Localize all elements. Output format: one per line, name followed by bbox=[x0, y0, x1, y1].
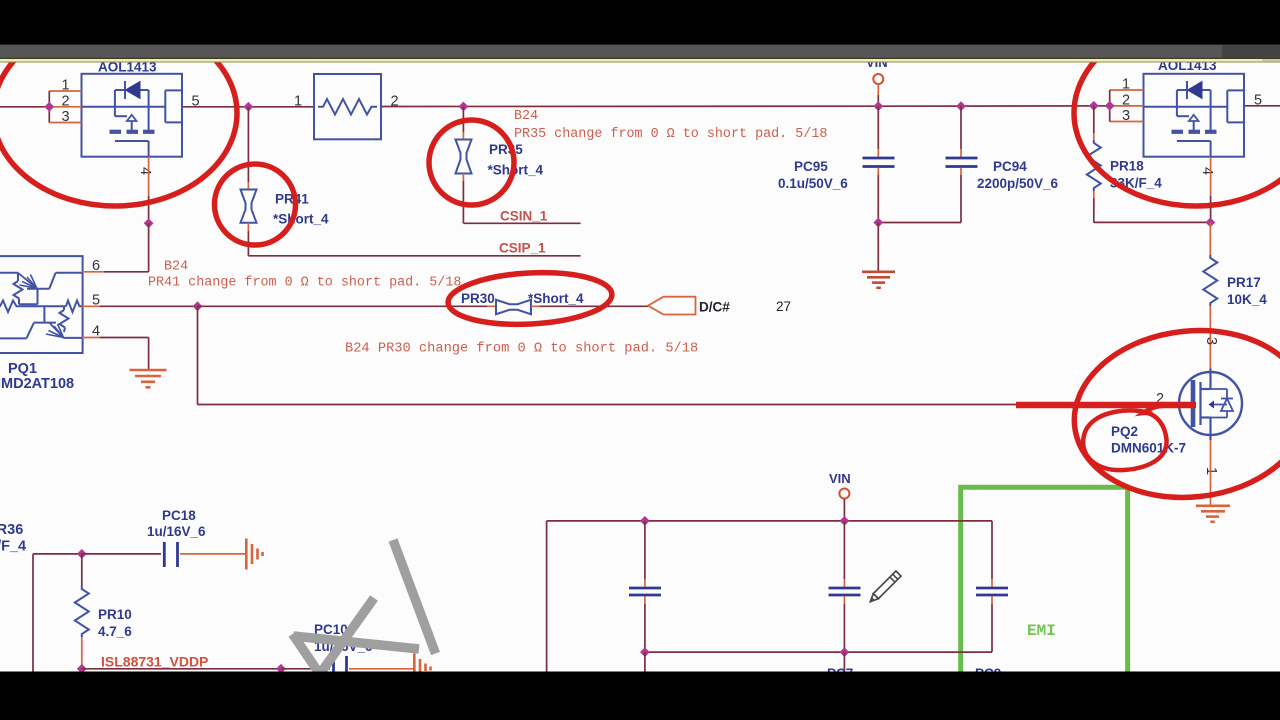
red marker ellipse around Q-right AOL1413 bbox=[1074, 20, 1280, 206]
node: junction dot PC94 branch bbox=[956, 101, 966, 111]
svg-text:CSIP_1: CSIP_1 bbox=[499, 241, 546, 256]
transistor Q-right AOL1413 bbox=[1144, 74, 1245, 157]
resistor PR35 (short pad hourglass) bbox=[456, 140, 472, 174]
wire: left corner net to PC18/PR10 bbox=[33, 553, 82, 555]
svg-text:2200p/50V_6: 2200p/50V_6 bbox=[977, 176, 1059, 191]
node: junction dot PR17 top bbox=[1205, 218, 1215, 228]
wire: PQ2 source to ground bbox=[1210, 440, 1212, 505]
wire: bottom block bottom rail bbox=[645, 651, 992, 653]
svg-text:3: 3 bbox=[62, 109, 70, 125]
capacitor PC10 bbox=[332, 656, 335, 672]
svg-text:B24: B24 bbox=[514, 109, 538, 124]
svg-text:IMD2AT108: IMD2AT108 bbox=[0, 376, 74, 392]
wire: PQ1 pin4 to ground bbox=[82, 337, 100, 339]
red marker thick line over PQ2 gate wire bbox=[1016, 402, 1196, 409]
node: junction dot VIN top bbox=[873, 101, 883, 111]
svg-text:2: 2 bbox=[62, 93, 70, 109]
node: junction dot at PR41 branch bbox=[244, 102, 254, 112]
svg-text:PR35 change from 0 Ω to short: PR35 change from 0 Ω to short pad. 5/18 bbox=[514, 127, 827, 142]
dark olive separator line bbox=[0, 58, 1280, 60]
pale yellow ruler strip bbox=[0, 59, 1280, 62]
wire: net CSIN_1 bbox=[463, 222, 580, 224]
wire: mid net to PR30 bbox=[198, 305, 488, 307]
node: junction dot bottom rail mid bbox=[840, 647, 850, 657]
transistor Q-left AOL1413 bbox=[82, 74, 183, 157]
resistor PR10 bbox=[81, 554, 83, 586]
transistor PQ1 IMD2AT108 bbox=[0, 256, 83, 353]
svg-text:PR36: PR36 bbox=[0, 522, 23, 538]
svg-text:27: 27 bbox=[776, 299, 791, 314]
svg-text:2: 2 bbox=[391, 94, 399, 110]
resistor PR41 (short pad hourglass) bbox=[241, 190, 257, 223]
capacitor (bottom left, PC?) bbox=[644, 521, 646, 579]
ground (PC10, rotated right-facing) bbox=[414, 654, 430, 673]
node: junction dot PC18/PR10 bbox=[77, 549, 87, 559]
node: junction dot at PR35 branch bbox=[459, 102, 469, 112]
svg-text:1u/16V_6: 1u/16V_6 bbox=[147, 524, 206, 539]
svg-text:PR17: PR17 bbox=[1227, 275, 1261, 290]
pencil cursor icon bbox=[868, 571, 901, 604]
svg-text:CSIN_1: CSIN_1 bbox=[500, 209, 548, 224]
svg-text:PR41 change from 0 Ω to short: PR41 change from 0 Ω to short pad. 5/18 bbox=[148, 276, 461, 291]
svg-text:0.1u/50V_6: 0.1u/50V_6 bbox=[778, 176, 848, 191]
capacitor PC94 bbox=[960, 106, 962, 149]
wire: down to PR41 bbox=[247, 107, 249, 182]
svg-text:EMI: EMI bbox=[1027, 622, 1056, 640]
node: junction dot right bracket bbox=[1105, 101, 1115, 111]
wire: PR41 bottom to CSIP_1 line bbox=[247, 223, 249, 231]
node: junction dot PR18 branch bbox=[1089, 101, 1099, 111]
node: junction dot top rail left cap bbox=[640, 516, 650, 526]
wire: resistor-box to PR35 junction and onward to VIN bbox=[381, 105, 878, 107]
watermark gray strokes bbox=[293, 540, 436, 676]
wire: down to PR35 bbox=[462, 107, 464, 133]
red marker blob around PQ2 bbox=[1066, 319, 1280, 509]
wire: net CSIP_1 bbox=[248, 255, 580, 257]
svg-text:1: 1 bbox=[62, 78, 70, 94]
node: junction dot pin4/pin6 bbox=[144, 218, 154, 228]
node: junction dot PR10 bottom bbox=[77, 664, 87, 674]
green EMI box bbox=[961, 487, 1128, 672]
svg-text:DMN601K-7: DMN601K-7 bbox=[1111, 441, 1186, 456]
svg-text:4: 4 bbox=[137, 167, 153, 175]
resistor PR17 bbox=[1209, 222, 1211, 255]
svg-text:D/C#: D/C# bbox=[699, 300, 730, 315]
resistor PR18 bbox=[1093, 106, 1095, 133]
yellow strip lower edge bbox=[0, 62, 1280, 63]
capacitor (bottom right in EMI box, PC?) bbox=[991, 521, 993, 579]
node: junction dot at left bracket bbox=[44, 102, 54, 112]
svg-text:4.7_6: 4.7_6 bbox=[98, 624, 132, 639]
wire: Q-left pin4 down to node bbox=[148, 157, 150, 196]
wire: PQ1 pin5 to mid net bbox=[82, 305, 100, 307]
red marker circle around PR41 bbox=[215, 164, 296, 245]
svg-text:0/F_4: 0/F_4 bbox=[0, 539, 26, 555]
svg-text:4: 4 bbox=[1199, 167, 1215, 175]
red marker ellipse around PR30 bbox=[447, 269, 613, 329]
wire: main top net y=106.5 left segment bbox=[0, 106, 49, 108]
svg-text:ISL88731_VDDP: ISL88731_VDDP bbox=[101, 654, 208, 670]
wire: Q-right pin4 down bbox=[1210, 158, 1212, 196]
pin bracket pins 1,2,3 (right Q) bbox=[1110, 90, 1144, 122]
capacitor PC95 bbox=[877, 106, 879, 149]
top black letterbox bar bbox=[0, 0, 1280, 45]
svg-text:PQ1: PQ1 bbox=[8, 361, 37, 377]
wire: mid node down and across to PQ2 gate bbox=[197, 306, 199, 404]
wire: PR35 bottom to CSIN_1 line bbox=[462, 174, 464, 182]
svg-text:PR35: PR35 bbox=[489, 142, 523, 157]
svg-text:B24: B24 bbox=[164, 260, 188, 275]
connector D/C# (off-page arrow) bbox=[648, 297, 696, 315]
svg-text:2: 2 bbox=[1122, 92, 1130, 108]
red marker ellipse around Q-left AOL1413 bbox=[0, 20, 237, 206]
svg-text:PC18: PC18 bbox=[162, 508, 196, 523]
wire: stubs down to edge bbox=[644, 652, 646, 672]
pin bracket pins 1,2,3 (left Q) bbox=[49, 91, 81, 123]
svg-text:5: 5 bbox=[1254, 93, 1262, 109]
svg-text:*Short_4: *Short_4 bbox=[528, 291, 584, 306]
red marker circle around PR35 bbox=[429, 120, 514, 205]
svg-text:3: 3 bbox=[1122, 108, 1130, 124]
wire: PR30 to D/C# connector bbox=[531, 305, 540, 307]
gray toolbar strip bbox=[0, 45, 1280, 59]
resistor PR30 (short pad bowtie) bbox=[496, 300, 531, 314]
wire: pin5 of Q-right to right edge bbox=[1244, 105, 1280, 107]
svg-text:PC94: PC94 bbox=[993, 159, 1027, 174]
toolbar right darker end bbox=[1222, 45, 1280, 59]
resistor (boxed) top middle bbox=[314, 74, 381, 139]
bottom black letterbox bar bbox=[0, 672, 1280, 720]
node: junction dot PC10 branch bbox=[276, 664, 286, 674]
svg-text:PQ2: PQ2 bbox=[1111, 424, 1138, 439]
svg-text:*Short_4: *Short_4 bbox=[273, 212, 329, 227]
wire: pin5 of Q-left to resistor-box net bbox=[182, 106, 314, 108]
svg-text:5: 5 bbox=[192, 94, 200, 110]
wire: bottom block top rail bbox=[547, 520, 992, 522]
node: junction dot mid net bbox=[193, 301, 203, 311]
svg-text:PR30: PR30 bbox=[461, 291, 495, 306]
svg-text:VIN: VIN bbox=[829, 471, 851, 486]
svg-text:PR18: PR18 bbox=[1110, 159, 1144, 174]
red marker loop around PQ2 label bbox=[1083, 405, 1171, 470]
svg-text:3: 3 bbox=[1203, 337, 1219, 345]
svg-text:1: 1 bbox=[1122, 77, 1130, 93]
ground (PC95/PC94) bbox=[862, 272, 895, 288]
wire: bottom net to PC10 bbox=[82, 668, 281, 670]
ground (PQ1 pin4) bbox=[130, 370, 167, 387]
svg-text:B24 PR30 change from 0 Ω to sh: B24 PR30 change from 0 Ω to short pad. 5… bbox=[345, 342, 698, 357]
svg-text:PR10: PR10 bbox=[98, 607, 132, 622]
capacitor (bottom mid, PC?) bbox=[843, 521, 845, 579]
svg-text:10K_4: 10K_4 bbox=[1227, 292, 1267, 307]
wire: caps to ground bbox=[877, 223, 879, 271]
svg-text:PC95: PC95 bbox=[794, 159, 828, 174]
wire: VIN to PC94 junction to right bracket bbox=[878, 105, 1143, 107]
node: junction dot bottom rail left bbox=[640, 647, 650, 657]
node: junction dot cap join bbox=[873, 218, 883, 228]
ground (PC18, rotated right-facing) bbox=[246, 539, 262, 570]
ground (PQ2) bbox=[1196, 506, 1230, 522]
transistor PQ2 DMN601K-7 bbox=[1179, 369, 1242, 441]
wire: PQ1 pin6 stub to node bbox=[82, 271, 104, 273]
capacitor PC18 bbox=[82, 553, 161, 555]
node: junction dot top rail VIN bbox=[840, 516, 850, 526]
svg-text:1: 1 bbox=[294, 94, 302, 110]
